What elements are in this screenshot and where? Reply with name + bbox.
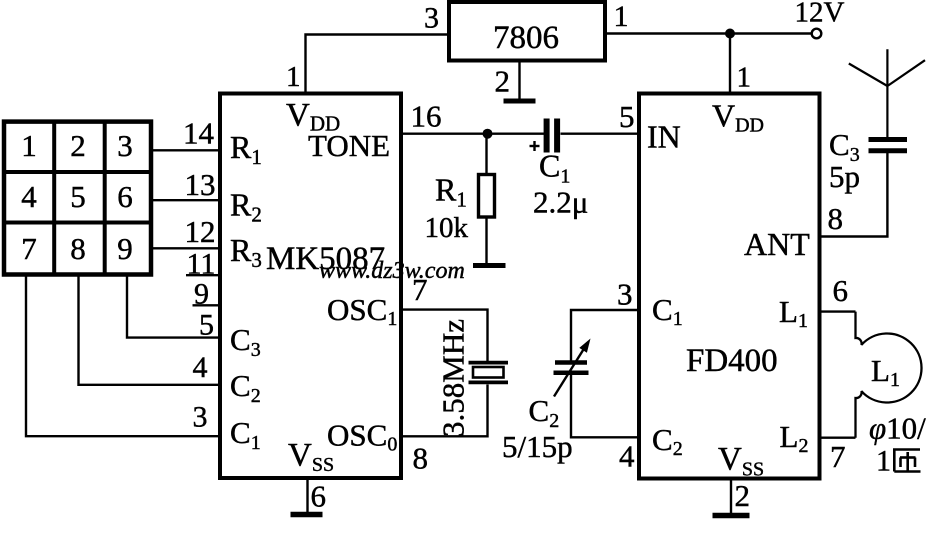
svg-text:3: 3 <box>424 2 439 35</box>
junction 12V rail <box>725 29 735 39</box>
svg-text:6: 6 <box>311 479 327 514</box>
svg-text:TONE: TONE <box>308 128 390 163</box>
svg-text:8: 8 <box>828 201 844 236</box>
wire C1 to FD400 pin5 IN <box>561 132 640 134</box>
wire 12V rail to FD400 pin1 VDD <box>729 34 731 94</box>
IC U2 FD400 <box>639 94 820 479</box>
svg-text:ANT: ANT <box>744 226 810 262</box>
svg-text:1: 1 <box>614 0 629 33</box>
svg-text:2: 2 <box>495 64 511 99</box>
wire TONE pin16 to C1 <box>401 132 544 134</box>
svg-text:1: 1 <box>286 61 301 93</box>
svg-text:9: 9 <box>194 278 209 311</box>
svg-text:2: 2 <box>735 478 751 513</box>
svg-text:OSC1: OSC1 <box>327 292 397 330</box>
svg-text:13: 13 <box>185 167 216 202</box>
svg-text:1: 1 <box>737 62 752 94</box>
coil L1 <box>856 312 922 438</box>
svg-text:14: 14 <box>183 116 215 151</box>
capacitor C1 <box>530 119 558 153</box>
svg-text:10k: 10k <box>425 212 469 244</box>
antenna <box>849 49 925 137</box>
ground 7806 pin2 <box>504 61 536 102</box>
svg-text:FD400: FD400 <box>686 343 778 379</box>
svg-text:7: 7 <box>830 439 846 474</box>
wire MK5087 pin1 VDD to 7806 pin3 <box>306 35 450 94</box>
svg-text:12V: 12V <box>795 0 845 29</box>
resistor R1 <box>479 134 495 263</box>
wire coil L1 to FD400 pin7 <box>820 437 856 439</box>
svg-text:8: 8 <box>413 441 429 476</box>
svg-text:8: 8 <box>70 231 86 266</box>
svg-text:OSC0: OSC0 <box>327 418 397 456</box>
svg-text:3: 3 <box>117 128 133 163</box>
svg-text:5/15p: 5/15p <box>502 429 573 464</box>
svg-text:7: 7 <box>21 231 37 266</box>
wire FD400 pin6 to coil L1 <box>820 310 856 312</box>
svg-text:φ10/: φ10/ <box>869 411 926 446</box>
svg-text:6: 6 <box>833 273 849 308</box>
svg-text:2.2μ: 2.2μ <box>533 185 588 220</box>
svg-text:3: 3 <box>617 277 633 312</box>
wire keypad row3 to R3 pin12 <box>151 247 220 249</box>
svg-text:5: 5 <box>199 309 214 342</box>
svg-text:7806: 7806 <box>493 20 559 56</box>
wire C3 to FD400 pin8 ANT <box>820 153 888 237</box>
wire keypad col2 to C2 pin4 <box>79 275 221 385</box>
svg-text:3.58MHz: 3.58MHz <box>436 319 471 437</box>
ground MK5087 VSS pin6 <box>291 478 323 515</box>
wire 7806 pin1 to 12V terminal <box>605 32 812 34</box>
node TONE junction <box>483 129 493 139</box>
svg-text:4: 4 <box>193 351 208 384</box>
keypad 3x3 <box>4 122 151 275</box>
svg-text:16: 16 <box>411 99 442 134</box>
pin 9 stub <box>193 304 221 306</box>
svg-text:IN: IN <box>647 119 681 155</box>
ground FD400 VSS pin2 <box>713 479 750 516</box>
IC U1 MK5087 <box>220 94 401 479</box>
svg-text:3: 3 <box>193 401 208 434</box>
svg-text:6: 6 <box>117 179 133 214</box>
svg-text:11: 11 <box>187 248 216 281</box>
svg-text:9: 9 <box>117 231 133 266</box>
terminal 12V <box>812 29 822 39</box>
hand-drawn CJK glyph "turn" <box>893 449 921 472</box>
svg-text:5p: 5p <box>829 159 860 194</box>
svg-text:2: 2 <box>70 128 86 163</box>
arrow of variable capacitor C2 <box>554 347 585 397</box>
capacitor C3 <box>869 140 908 151</box>
crystal X1 3.58MHz loop <box>401 310 488 361</box>
pin 11 stub <box>186 274 220 276</box>
svg-text:4: 4 <box>21 179 37 214</box>
ground R1 <box>473 263 506 268</box>
svg-text:5: 5 <box>70 179 86 214</box>
svg-text:www.dz3w.com: www.dz3w.com <box>319 258 465 284</box>
svg-text:1: 1 <box>21 128 37 163</box>
wire keypad col3 to C3 pin5 <box>127 275 220 338</box>
variable capacitor C2 loop <box>571 310 639 361</box>
wire keypad row1 to R1 pin14 <box>151 149 220 151</box>
svg-text:1: 1 <box>876 445 891 478</box>
svg-text:5: 5 <box>619 99 635 134</box>
wire keypad col1 to C1 pin3 <box>26 275 220 437</box>
svg-text:4: 4 <box>619 439 635 474</box>
svg-text:12: 12 <box>185 214 216 249</box>
regulator 7806 <box>449 2 605 61</box>
wire keypad row2 to R2 pin13 <box>151 199 220 201</box>
